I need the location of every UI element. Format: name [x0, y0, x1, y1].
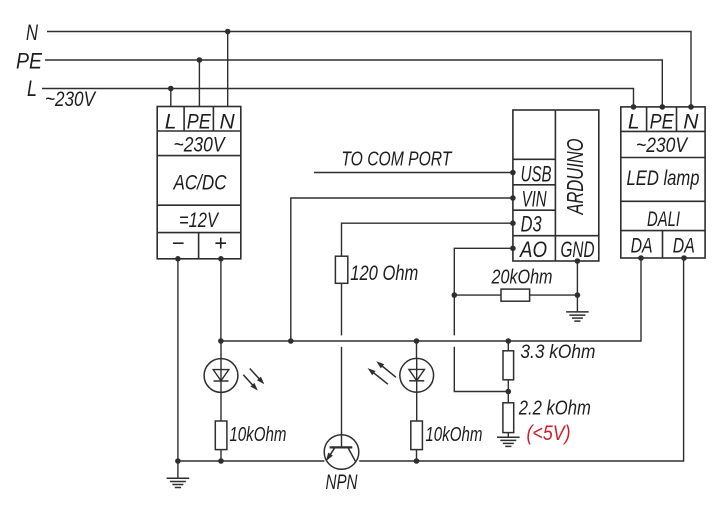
wire D1 to R3 [220, 392, 222, 421]
wire R5 to midpoint [507, 380, 509, 392]
resistor R1 120 Ohm [335, 256, 347, 283]
wire N drop to AC/DC [227, 32, 229, 107]
node R4 bottom junction [414, 458, 420, 464]
svg-text:TO COM PORT: TO COM PORT [341, 149, 452, 171]
power supply U1 AC/DC block [157, 107, 241, 259]
wire USB to COM port [314, 172, 513, 174]
wire GND pin down [576, 261, 578, 312]
light arrows of D2 [381, 365, 396, 377]
wire midpoint to R6 [507, 392, 509, 403]
svg-text:D3: D3 [521, 212, 543, 237]
node lamp DA left terminal [638, 255, 644, 261]
node pin D3 [510, 220, 516, 226]
svg-text:DALI: DALI [647, 208, 680, 231]
wire ground rail left segment [178, 460, 325, 462]
svg-text:~230V: ~230V [636, 134, 689, 157]
node N junction [225, 29, 231, 35]
svg-text:~230V: ~230V [45, 88, 97, 111]
resistor R5 3.3 kOhm [503, 351, 514, 380]
wire PE drop to AC/DC [198, 60, 200, 107]
resistor R2 20kOhm [501, 289, 530, 301]
microcontroller U2 ARDUINO block [513, 110, 599, 261]
wire R2 to GND pin [530, 294, 578, 296]
wire AO left and down upper [454, 248, 513, 335]
wire R3 to ground rail [220, 450, 222, 461]
svg-text:L: L [628, 110, 640, 133]
svg-text:AC/DC: AC/DC [172, 172, 227, 195]
wire rail to LED D2 [416, 341, 418, 358]
svg-text:+: + [214, 231, 227, 256]
node ground rail left junction [175, 458, 181, 464]
svg-text:N: N [683, 110, 699, 133]
wire N rail [47, 32, 691, 107]
wire PE rail [45, 60, 662, 107]
wire ground rail right segment [359, 258, 683, 461]
svg-text:VIN: VIN [522, 187, 547, 212]
resistor R4 10kOhm right [411, 421, 423, 450]
svg-text:~230V: ~230V [174, 134, 227, 157]
node L junction [168, 86, 174, 92]
svg-text:AO: AO [518, 237, 547, 262]
LED D2 [400, 358, 434, 392]
node pin GND [575, 258, 581, 264]
wire VIN to 12V rail [291, 198, 513, 341]
svg-text:(<5V): (<5V) [527, 422, 571, 445]
node GND junction [575, 292, 581, 298]
node PE junction [197, 57, 203, 63]
svg-text:10kOhm: 10kOhm [229, 424, 286, 446]
svg-text:GND: GND [561, 237, 595, 262]
svg-text:2.2 kOhm: 2.2 kOhm [518, 398, 591, 420]
svg-text:N: N [26, 20, 38, 45]
wire R4 to ground rail [416, 450, 418, 461]
wire rail to LED D1 [220, 341, 222, 359]
node pin VIN [510, 195, 516, 201]
wire AO down lower to divider [454, 347, 508, 392]
light arrows of D1 [250, 369, 260, 380]
wire D2 to R4 [416, 392, 418, 421]
wire R1 to NPN base lower [341, 347, 343, 448]
node pin AO [510, 246, 516, 252]
wire plus terminal down [220, 259, 222, 341]
LED D1 [204, 359, 238, 393]
svg-text:L: L [165, 110, 177, 133]
node AC/DC minus terminal [175, 256, 181, 262]
svg-text:−: − [171, 231, 184, 256]
node AO to 20k junction [452, 292, 458, 298]
svg-text:=12V: =12V [179, 209, 220, 232]
wire D3 to R1 [342, 223, 513, 256]
wire rail to R5 [507, 341, 509, 351]
ground symbol at ground rail [177, 461, 179, 478]
node AC/DC plus terminal [218, 256, 224, 262]
svg-text:LED lamp: LED lamp [627, 167, 700, 190]
wire R1 to NPN base upper [341, 283, 343, 335]
svg-text:PE: PE [16, 49, 42, 74]
node divider top junction [506, 338, 512, 344]
svg-text:USB: USB [521, 162, 552, 187]
wire minus terminal down [177, 259, 179, 461]
wire L drop to AC/DC [170, 89, 172, 107]
wire AO to R2 [454, 294, 501, 296]
svg-text:L: L [27, 76, 37, 101]
wire R6 to ground [507, 433, 509, 438]
node lamp N terminal [688, 104, 694, 110]
svg-text:PE: PE [187, 110, 212, 133]
node lamp PE terminal [660, 104, 666, 110]
wire 12V horizontal rail [221, 258, 641, 341]
svg-text:DA: DA [631, 234, 653, 257]
svg-text:ARDUINO: ARDUINO [562, 138, 588, 216]
node divider midpoint junction [506, 389, 512, 395]
LED lamp block [621, 107, 705, 258]
ground symbol below R6 [497, 436, 520, 438]
node photo LED junction [414, 338, 420, 344]
node VIN junction on 12V rail [288, 338, 294, 344]
resistor R3 10kOhm left [215, 421, 227, 450]
svg-text:3.3 kOhm: 3.3 kOhm [520, 342, 595, 363]
ground symbol at GND pin [566, 311, 589, 313]
wire L rail [42, 89, 634, 107]
transistor Q1 NPN [324, 435, 359, 470]
svg-text:DA: DA [673, 234, 695, 257]
node R3 bottom junction [218, 458, 224, 464]
svg-text:PE: PE [650, 110, 675, 133]
node pin USB [510, 170, 516, 176]
resistor R6 2.2 kOhm [503, 403, 514, 433]
svg-text:NPN: NPN [326, 471, 359, 494]
svg-text:120 Ohm: 120 Ohm [350, 262, 418, 285]
node lamp DA right terminal [681, 255, 687, 261]
svg-text:N: N [220, 110, 236, 133]
node plus rail junction [218, 338, 224, 344]
svg-text:10kOhm: 10kOhm [425, 424, 482, 446]
svg-text:20kOhm: 20kOhm [491, 266, 553, 288]
node lamp L terminal [631, 104, 637, 110]
